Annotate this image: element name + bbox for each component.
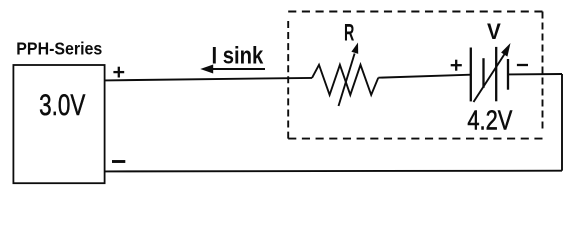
battery V plate 2 (short) (482, 58, 484, 88)
dashed enclosure box (variable load) (288, 12, 542, 139)
resistor R zigzag (variable) (312, 65, 378, 95)
svg-text:I sink: I sink (212, 42, 264, 69)
wire right vertical (561, 74, 563, 171)
svg-text:4.2V: 4.2V (467, 104, 513, 135)
resistor R wiper arrow (339, 43, 359, 107)
current arrow I sink (pointing left) (200, 65, 265, 74)
plus terminal sign of BT1 (113, 67, 124, 78)
wire: resistor R to battery V (378, 75, 471, 78)
minus terminal sign of BT1 (112, 160, 125, 163)
wire bottom: right corner to BT1 minus terminal (105, 170, 562, 173)
battery BT1 box (PPH-Series 3.0V source) (13, 65, 104, 183)
minus sign at battery V right terminal (517, 64, 528, 66)
battery V plate 4 (short, -) (507, 59, 509, 90)
wire: battery V minus terminal to right corner (508, 73, 562, 75)
svg-text:PPH-Series: PPH-Series (16, 39, 102, 59)
plus sign at battery V left terminal (451, 60, 462, 71)
battery V variable arrow (474, 43, 511, 102)
svg-text:R: R (344, 20, 354, 46)
battery V plate 3 (long) (495, 47, 497, 101)
svg-text:3.0V: 3.0V (39, 89, 85, 122)
wire top: BT1 + terminal to resistor R (105, 78, 312, 81)
battery V plate 1 (long, +) (470, 48, 472, 102)
svg-text:V: V (487, 19, 501, 44)
